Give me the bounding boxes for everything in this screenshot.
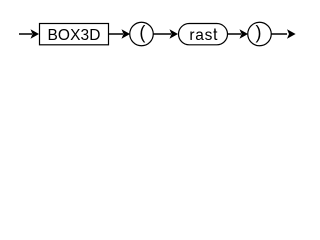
- arrowhead into rast: [170, 29, 179, 39]
- svg-text:rast: rast: [189, 27, 218, 44]
- svg-text:(: (: [139, 23, 145, 43]
- arrowhead into (: [122, 29, 131, 39]
- wire end line: [271, 33, 287, 35]
- label rast: t ascender extension: [214, 29, 215, 32]
- arrowhead end: [287, 29, 296, 39]
- svg-text:BOX3D: BOX3D: [47, 27, 100, 44]
- box BOX3D: [40, 24, 109, 45]
- arrowhead into BOX3D: [31, 29, 40, 39]
- circle terminal (: [130, 22, 154, 46]
- wire ( to rast: [153, 33, 171, 35]
- wire rast to ): [228, 33, 241, 35]
- wire start line: [19, 33, 32, 35]
- wire box to (: [109, 33, 123, 35]
- svg-text:): ): [256, 23, 262, 43]
- arrowhead into ): [240, 29, 249, 39]
- stadium terminal rast: [179, 24, 228, 45]
- syntax railroad diagram: BOX3D ( rast ): [0, 0, 296, 58]
- circle terminal ): [248, 22, 272, 46]
